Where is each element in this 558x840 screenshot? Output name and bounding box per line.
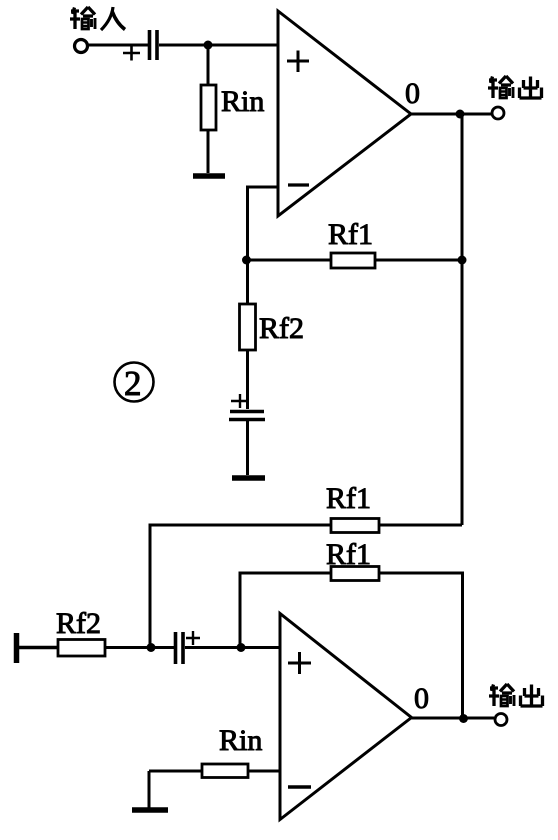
U2 + input mark <box>288 652 311 674</box>
node: U2 output junction <box>459 714 468 723</box>
output terminal (top) <box>492 107 504 119</box>
U1 - input mark <box>288 183 309 186</box>
wire U1 inverting input <box>248 187 279 260</box>
wire C3 to U2 + input <box>185 646 280 649</box>
wire Rin (bottom) left segment <box>149 770 202 773</box>
op-amp U2 <box>280 614 412 820</box>
capacitor C1 <box>150 30 158 60</box>
svg-text:Rf1: Rf1 <box>326 482 371 515</box>
wire input to C1 <box>88 44 148 47</box>
U1 + input mark <box>287 51 309 73</box>
svg-text:2: 2 <box>124 364 142 403</box>
wire Rin to U2 - input <box>248 770 280 773</box>
wire stage-link Rf1 (row 1) <box>150 525 462 647</box>
label 输出 (output, bottom) <box>489 684 543 706</box>
resistor Rf2 (vertical) <box>240 304 256 350</box>
resistor Rf1 (row 2) <box>331 567 379 581</box>
node: inverting/Rf2 junction <box>242 256 251 265</box>
U2 - input mark <box>288 785 311 789</box>
wire U1 output <box>411 113 491 116</box>
node: Rf1/output-line junction <box>458 256 467 265</box>
wire Rin to ground <box>207 130 210 173</box>
capacitor C2 <box>229 412 265 420</box>
出 char <box>521 685 543 707</box>
svg-text:0: 0 <box>405 77 420 110</box>
wire feedback Rf1 (row 2) <box>240 573 463 719</box>
capacitor C3 <box>176 632 184 664</box>
输 char <box>488 76 513 98</box>
wire node to Rin <box>207 45 210 85</box>
resistor Rf1 (middle) <box>331 253 375 268</box>
入 char <box>101 7 125 30</box>
resistor Rf2 (bottom, horizontal) <box>58 640 105 657</box>
输 char <box>489 684 514 706</box>
svg-text:Rin: Rin <box>221 85 264 118</box>
svg-text:0: 0 <box>414 682 429 715</box>
polarity + of C1 <box>123 47 140 61</box>
svg-text:Rin: Rin <box>219 724 262 757</box>
resistor Rin (bottom) <box>202 764 248 778</box>
wire Rf2 to C3 <box>105 646 174 649</box>
svg-text:Rf1: Rf1 <box>326 538 371 571</box>
input terminal <box>75 40 88 53</box>
wire Rin to ground (bottom) <box>148 771 151 808</box>
svg-text:Rf2: Rf2 <box>56 607 101 640</box>
node: C1/Rin junction <box>204 41 213 50</box>
出 char <box>520 77 542 99</box>
wire Rf2 branch vertical <box>246 260 249 409</box>
op-amp U1 <box>278 11 411 216</box>
wire C1 to op-amp U1 + input <box>159 44 278 47</box>
polarity + of C3 <box>186 631 200 645</box>
label 输入 (input) <box>70 7 125 30</box>
node: Rf1 row1 / C3 junction <box>147 643 156 652</box>
node: U1 output junction <box>456 110 465 119</box>
node: U2 + input junction <box>237 643 246 652</box>
resistor Rin (top) <box>201 85 216 130</box>
wire main vertical from U1 output <box>461 114 464 525</box>
ground (top Rin) <box>193 173 225 179</box>
label 输出 (output, top) <box>488 76 542 98</box>
output terminal (bottom) <box>495 714 507 726</box>
ground (C2) <box>232 475 265 481</box>
polarity + of C2 <box>231 394 249 408</box>
svg-text:Rf1: Rf1 <box>328 218 373 251</box>
wire terminal to Rf2 <box>19 646 58 649</box>
wire C2 to ground <box>246 421 249 475</box>
输 char <box>70 7 95 29</box>
wire U2 output <box>412 717 495 720</box>
terminal bar (bottom-left) <box>14 633 20 663</box>
ground (bottom Rin) <box>132 807 168 813</box>
resistor Rf1 (row 1) <box>331 519 379 533</box>
wire feedback Rf1 (middle) <box>248 259 463 262</box>
circled number 2 <box>115 363 154 402</box>
svg-text:Rf2: Rf2 <box>259 312 304 345</box>
